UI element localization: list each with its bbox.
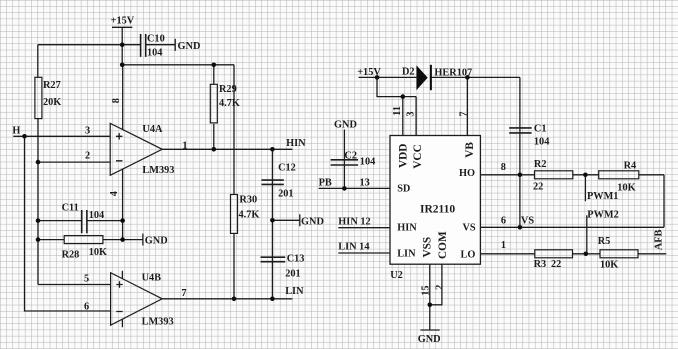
svg-text:104: 104 [89, 210, 104, 221]
svg-text:+15V: +15V [111, 16, 135, 27]
svg-text:HIN: HIN [397, 223, 417, 234]
svg-text:VCC: VCC [412, 144, 424, 168]
svg-text:15: 15 [420, 285, 431, 295]
svg-text:4: 4 [109, 191, 120, 196]
svg-text:C13: C13 [287, 253, 305, 264]
svg-text:R5: R5 [598, 236, 611, 247]
svg-text:201: 201 [278, 189, 293, 200]
svg-text:11: 11 [392, 106, 403, 116]
svg-text:6: 6 [84, 302, 89, 313]
svg-text:10K: 10K [89, 247, 107, 258]
svg-text:AFB: AFB [654, 229, 665, 250]
svg-text:U2: U2 [390, 270, 403, 281]
svg-text:8: 8 [111, 98, 122, 103]
svg-text:GND: GND [301, 217, 324, 228]
svg-text:104: 104 [534, 136, 549, 147]
svg-text:VS: VS [521, 215, 534, 226]
svg-text:LIN: LIN [285, 286, 304, 297]
svg-text:IR2110: IR2110 [420, 203, 455, 215]
svg-text:104: 104 [147, 48, 162, 59]
svg-text:6: 6 [501, 215, 506, 226]
svg-text:R29: R29 [219, 84, 237, 95]
svg-text:VSS: VSS [422, 237, 434, 258]
svg-text:C10: C10 [147, 34, 165, 45]
svg-text:PB: PB [319, 178, 332, 189]
svg-text:HIN 12: HIN 12 [338, 217, 370, 228]
svg-text:C2: C2 [344, 151, 357, 162]
svg-text:2: 2 [435, 285, 446, 290]
svg-text:H: H [12, 125, 20, 136]
svg-text:R2: R2 [534, 159, 547, 170]
svg-text:LIN 14: LIN 14 [338, 242, 369, 253]
svg-text:22: 22 [551, 259, 561, 270]
svg-text:1: 1 [501, 240, 506, 251]
svg-text:10K: 10K [600, 260, 618, 271]
svg-text:VDD: VDD [398, 144, 410, 168]
svg-text:22: 22 [533, 181, 543, 192]
svg-text:R28: R28 [62, 250, 80, 261]
svg-text:C1: C1 [534, 123, 547, 134]
svg-text:LIN: LIN [397, 249, 416, 260]
svg-text:3: 3 [406, 111, 417, 116]
svg-text:R3: R3 [534, 259, 547, 270]
svg-text:13: 13 [360, 178, 370, 189]
svg-text:3: 3 [85, 125, 90, 136]
svg-text:7: 7 [459, 111, 470, 116]
svg-text:5: 5 [84, 274, 89, 285]
svg-text:R27: R27 [43, 80, 61, 91]
svg-text:LM393: LM393 [142, 316, 174, 327]
svg-text:8: 8 [501, 162, 506, 173]
svg-text:LO: LO [461, 250, 476, 261]
svg-text:7: 7 [181, 288, 186, 299]
svg-text:SD: SD [397, 184, 410, 195]
svg-text:HO: HO [459, 168, 475, 179]
svg-text:VB: VB [464, 142, 476, 158]
svg-text:GND: GND [178, 41, 201, 52]
svg-text:U4B: U4B [142, 273, 162, 284]
svg-text:VS: VS [463, 222, 476, 233]
svg-text:LM393: LM393 [142, 165, 174, 176]
svg-text:GND: GND [334, 119, 357, 130]
svg-text:4.7K: 4.7K [219, 98, 240, 109]
svg-text:GND: GND [145, 236, 168, 247]
svg-text:1: 1 [182, 141, 187, 152]
svg-text:R30: R30 [239, 195, 257, 206]
svg-text:R4: R4 [624, 161, 637, 172]
svg-text:HIN: HIN [286, 138, 306, 149]
svg-text:D2: D2 [402, 67, 415, 78]
svg-text:U4A: U4A [142, 124, 163, 135]
svg-text:C11: C11 [62, 203, 79, 214]
svg-text:20K: 20K [43, 97, 61, 108]
svg-text:104: 104 [360, 157, 375, 168]
svg-text:201: 201 [285, 269, 300, 280]
svg-text:C12: C12 [278, 162, 296, 173]
svg-text:10K: 10K [617, 183, 635, 194]
svg-text:+15V: +15V [357, 67, 381, 78]
svg-text:PWM1: PWM1 [587, 191, 618, 202]
svg-text:GND: GND [418, 334, 441, 345]
svg-text:2: 2 [85, 151, 90, 162]
svg-text:COM: COM [437, 231, 449, 259]
svg-text:HER107: HER107 [434, 68, 472, 79]
svg-text:PWM2: PWM2 [587, 210, 618, 221]
svg-text:4.7K: 4.7K [239, 210, 260, 221]
